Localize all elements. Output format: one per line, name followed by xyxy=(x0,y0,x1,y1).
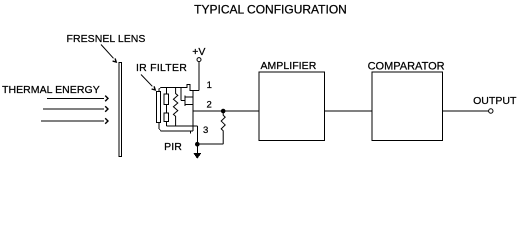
amplifier block U1 xyxy=(259,72,324,140)
svg-text:3: 3 xyxy=(203,125,208,136)
leader line to fresnel lens xyxy=(101,45,114,59)
wire resistor bottom to ground node xyxy=(197,143,223,145)
svg-text:FRESNEL LENS: FRESNEL LENS xyxy=(67,33,146,45)
svg-text:OUTPUT: OUTPUT xyxy=(473,95,517,107)
ground xyxy=(196,144,198,153)
FET source lead xyxy=(185,104,193,106)
pin 2 wire xyxy=(193,110,259,112)
sensing element 1 xyxy=(164,94,169,105)
internal bottom bus wire xyxy=(166,125,197,127)
FET gate lead xyxy=(181,87,185,100)
FET drain lead xyxy=(185,96,193,98)
FET channel bar xyxy=(184,96,186,107)
junction dot on pin 2 xyxy=(221,109,226,114)
+V terminal circle xyxy=(197,58,201,62)
svg-text:1: 1 xyxy=(207,80,212,91)
svg-text:PIR: PIR xyxy=(164,141,182,153)
+V wire xyxy=(193,62,199,91)
svg-text:2: 2 xyxy=(207,99,212,110)
svg-text:TYPICAL CONFIGURATION: TYPICAL CONFIGURATION xyxy=(194,3,347,17)
svg-text:IR FILTER: IR FILTER xyxy=(136,62,187,74)
svg-text:AMPLIFIER: AMPLIFIER xyxy=(260,60,316,72)
comparator block U2 xyxy=(372,72,443,140)
output wire xyxy=(442,110,488,112)
PIR can outline xyxy=(159,84,193,133)
element wires xyxy=(165,87,167,126)
leader line to IR filter xyxy=(141,75,152,87)
resistor R (external) xyxy=(221,111,225,144)
pin 3 wire xyxy=(196,126,198,143)
svg-text:COMPARATOR: COMPARATOR xyxy=(368,60,445,72)
thermal arrow 2 xyxy=(43,108,104,110)
sensing element 2 xyxy=(164,113,169,122)
wire amplifier to comparator xyxy=(325,110,372,112)
thermal arrow 1 xyxy=(47,97,104,99)
output terminal circle xyxy=(489,109,493,113)
ground junction dot xyxy=(195,142,200,147)
IR filter window xyxy=(157,92,161,123)
svg-text:+V: +V xyxy=(192,46,205,58)
thermal arrow 3 xyxy=(41,120,104,122)
internal resistor xyxy=(173,87,177,126)
fresnel lens xyxy=(119,62,122,156)
svg-text:THERMAL ENERGY: THERMAL ENERGY xyxy=(2,84,100,96)
